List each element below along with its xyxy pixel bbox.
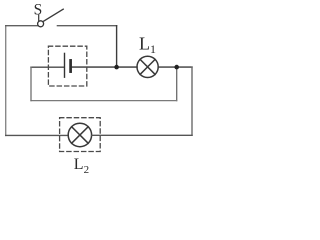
wire inner bottom horizontal <box>31 100 177 102</box>
switch S pivot circle <box>38 21 44 27</box>
switch S label tick <box>38 15 40 20</box>
wire top-left horizontal to switch <box>6 25 38 27</box>
wire right outer vertical <box>191 67 193 135</box>
battery cell long plate (positive) <box>64 53 66 77</box>
node B junction dot <box>174 65 179 70</box>
svg-text:S: S <box>34 2 43 19</box>
lamp L1 <box>137 56 158 77</box>
wire lamp L1 right to node B <box>158 66 192 68</box>
battery dashed enclosure box <box>48 46 86 86</box>
battery cell short plate (negative) <box>69 60 72 71</box>
wire left vertical <box>5 26 7 136</box>
wire inner left vertical <box>30 67 32 100</box>
switch S blade <box>44 9 64 21</box>
wire inner right vertical from node B <box>176 67 178 101</box>
lamp L2 dashed enclosure box <box>60 118 101 152</box>
wire top horizontal right of switch <box>57 25 116 27</box>
node A junction dot <box>114 65 119 70</box>
wire lamp L2 right to bottom-right corner <box>92 134 192 136</box>
wire battery left lead <box>31 66 64 68</box>
lamp L2 <box>68 123 91 146</box>
wire bottom left to lamp L2 <box>6 134 68 136</box>
wire vertical down to node A <box>116 26 118 67</box>
wire battery right lead to node A <box>71 66 137 68</box>
